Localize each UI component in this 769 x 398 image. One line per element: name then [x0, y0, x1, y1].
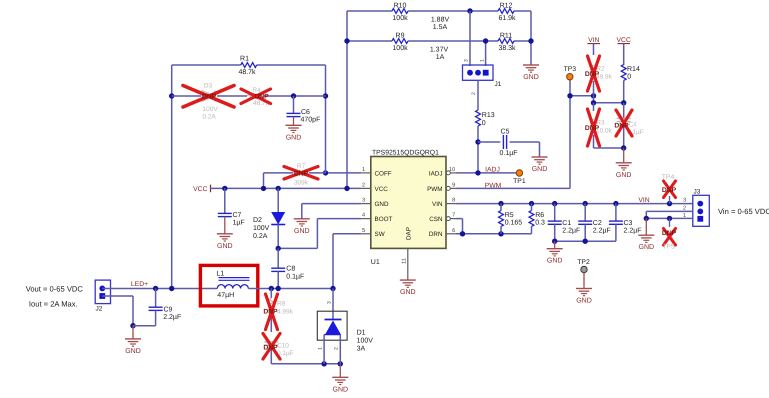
svg-text:R5: R5 — [505, 212, 514, 219]
svg-text:DNP: DNP — [662, 230, 677, 237]
svg-text:Vout = 0-65 VDC: Vout = 0-65 VDC — [26, 284, 84, 293]
wire D3/R4 middle net — [172, 93, 326, 98]
DNP mark D3 — [183, 86, 234, 108]
svg-text:0.1µF: 0.1µF — [286, 273, 304, 280]
label 1.88V 1.5A — [431, 17, 450, 32]
svg-text:8: 8 — [452, 198, 455, 204]
svg-text:L1: L1 — [216, 270, 224, 277]
svg-text:J2: J2 — [96, 306, 103, 313]
capacitor C5 — [478, 129, 540, 158]
svg-text:R14: R14 — [627, 66, 640, 73]
pin label 1 of J1 — [480, 59, 486, 62]
wire CSN net — [456, 219, 463, 234]
svg-text:J3: J3 — [694, 189, 701, 196]
pin 6 DRN of U1 — [429, 228, 456, 238]
test point TP3 — [564, 66, 577, 80]
DNP mark C10 — [263, 334, 280, 360]
svg-text:DNP: DNP — [294, 171, 309, 178]
svg-text:GND: GND — [532, 166, 548, 173]
svg-text:DNP: DNP — [263, 345, 278, 352]
pin 7 CSN of U1 — [429, 213, 455, 223]
svg-text:GND: GND — [576, 298, 592, 305]
pin 1 COFF of U1 — [361, 167, 392, 177]
resistor R7 DNP crossed — [264, 163, 326, 188]
svg-text:TP1: TP1 — [513, 178, 526, 185]
svg-text:0.1µF: 0.1µF — [500, 150, 518, 157]
wire left rail of R1 loop — [169, 65, 174, 289]
wire C10 to D1 anode row — [271, 361, 343, 366]
svg-text:Vin = 0-65 VDC: Vin = 0-65 VDC — [718, 207, 769, 216]
wire VCC net — [211, 186, 362, 191]
wire J1 pin1 drop — [483, 38, 488, 66]
pin 5 SW of U1 — [361, 228, 384, 238]
DNP mark R7 — [284, 167, 318, 180]
wire R10 top net — [347, 10, 531, 12]
wire PWM net to TP3 — [456, 80, 570, 188]
svg-text:47µH: 47µH — [217, 292, 234, 299]
pin label 2 of J3 — [683, 206, 686, 212]
wire J2 pin2 to gnd node — [102, 296, 135, 328]
resistor R6 — [529, 204, 545, 234]
svg-text:U1: U1 — [371, 259, 380, 266]
DNP mark R2 — [585, 56, 600, 91]
svg-text:TP3: TP3 — [564, 66, 577, 73]
svg-text:D2: D2 — [253, 217, 262, 224]
connector J1 — [463, 65, 502, 88]
DNP mark R4 — [241, 89, 271, 104]
svg-text:11: 11 — [402, 258, 408, 264]
svg-text:C10: C10 — [277, 342, 289, 349]
wire GND pin3 net — [302, 204, 361, 219]
wire R3/C4 bottoms tie — [594, 145, 627, 150]
svg-text:DAP: DAP — [406, 227, 413, 240]
wire J1 pin2 to R13 — [477, 80, 479, 110]
svg-text:2.2µF: 2.2µF — [163, 314, 181, 321]
svg-text:D1: D1 — [357, 330, 366, 337]
wire SW net — [333, 234, 361, 289]
svg-text:DNP: DNP — [585, 125, 600, 132]
capacitor C2 — [578, 204, 611, 242]
svg-text:DNP: DNP — [254, 94, 269, 101]
svg-text:DNP: DNP — [202, 94, 217, 101]
pin label 3 of J1 — [464, 59, 470, 62]
svg-text:C4: C4 — [629, 122, 638, 129]
svg-text:3: 3 — [464, 59, 470, 62]
wire BOOT net — [276, 219, 362, 251]
svg-text:GND: GND — [400, 289, 416, 296]
svg-text:9: 9 — [452, 182, 455, 188]
DNP mark C4 — [614, 110, 637, 136]
label 1.37V 1A — [430, 47, 449, 62]
svg-text:PWM: PWM — [485, 182, 502, 189]
svg-text:GND: GND — [639, 244, 655, 251]
svg-text:3: 3 — [327, 301, 333, 304]
wire IADJ net to TP1 — [456, 170, 517, 175]
inductor L1 — [216, 270, 249, 299]
svg-text:GND: GND — [547, 258, 563, 265]
ground under J3 — [638, 218, 654, 251]
svg-text:2: 2 — [334, 347, 340, 350]
capacitor C6 — [287, 96, 321, 125]
svg-text:3: 3 — [362, 198, 365, 204]
pin 10 IADJ of U1 — [429, 167, 456, 177]
svg-text:TPS92515QDGQRQ1: TPS92515QDGQRQ1 — [372, 149, 439, 156]
svg-text:R10: R10 — [394, 2, 407, 9]
svg-text:2.2µF: 2.2µF — [624, 228, 642, 235]
net label IADJ — [485, 166, 500, 173]
ground under TP2 — [576, 289, 592, 305]
svg-text:6: 6 — [452, 228, 455, 234]
svg-text:GND: GND — [286, 134, 302, 141]
svg-text:470pF: 470pF — [301, 116, 321, 123]
svg-text:IADJ: IADJ — [429, 170, 443, 177]
resistor R10 — [392, 2, 408, 22]
test point TP2 — [577, 259, 590, 289]
capacitor C9 — [133, 289, 181, 326]
svg-text:LED+: LED+ — [131, 281, 148, 288]
wire J3 pin2 to gnd — [646, 211, 693, 218]
resistor R9 — [392, 32, 408, 52]
svg-text:GND: GND — [125, 348, 141, 355]
svg-text:C3: C3 — [624, 220, 633, 227]
pin 2 VCC of U1 — [361, 182, 388, 192]
svg-text:38.3k: 38.3k — [498, 44, 516, 52]
svg-text:1: 1 — [362, 167, 365, 173]
svg-text:1.5A: 1.5A — [433, 24, 448, 31]
ground under C1 — [547, 241, 563, 265]
label Vin = 0-65 VDC — [718, 207, 769, 216]
svg-text:1.37V: 1.37V — [430, 47, 449, 54]
diode D1 — [317, 311, 373, 364]
svg-text:DNP: DNP — [585, 71, 600, 78]
svg-text:D3: D3 — [204, 82, 213, 89]
svg-text:1µF: 1µF — [233, 220, 245, 227]
svg-text:GND: GND — [375, 201, 389, 208]
svg-text:Iout = 2A Max.: Iout = 2A Max. — [29, 299, 78, 308]
pin 9 PWM of U1 — [427, 182, 455, 192]
svg-text:GND: GND — [294, 228, 310, 235]
svg-text:VCC: VCC — [375, 186, 389, 193]
svg-text:100V: 100V — [253, 225, 270, 232]
svg-text:DNP: DNP — [662, 187, 677, 194]
svg-text:J1: J1 — [495, 81, 502, 88]
resistor R1 — [238, 56, 256, 76]
connector J2 — [95, 280, 110, 312]
wire COFF net — [323, 170, 361, 175]
svg-text:IADJ: IADJ — [485, 166, 500, 173]
svg-text:0: 0 — [482, 120, 486, 127]
svg-text:R12: R12 — [500, 2, 513, 9]
ground under D1 — [332, 364, 348, 394]
svg-text:7: 7 — [452, 213, 455, 219]
svg-text:COFF: COFF — [375, 170, 392, 177]
svg-text:61.9k: 61.9k — [498, 14, 516, 22]
wire J1 pin3 drop — [469, 11, 471, 66]
svg-text:CSN: CSN — [429, 216, 443, 223]
svg-text:1A: 1A — [436, 54, 445, 61]
svg-text:3A: 3A — [357, 346, 366, 353]
pin label 1 of J3 — [683, 213, 686, 219]
pin 11 DAP of U1 — [402, 227, 413, 280]
test point TP1 — [513, 170, 526, 185]
svg-text:DNP: DNP — [614, 123, 629, 130]
pin 4 BOOT of U1 — [361, 213, 392, 223]
svg-text:R1: R1 — [240, 56, 249, 63]
wire VIN bus — [456, 201, 693, 206]
DNP mark R3 — [585, 109, 600, 146]
connector J3 — [693, 189, 710, 227]
wire capacitor bottoms tie — [552, 239, 616, 244]
ground under DAP — [400, 280, 416, 296]
wire LED+ net — [102, 286, 217, 291]
wire DRN net — [456, 231, 532, 236]
capacitor C3 — [609, 204, 642, 242]
ground under C7 — [217, 234, 233, 250]
svg-text:309k: 309k — [294, 180, 309, 187]
net label LED+ — [131, 281, 148, 288]
test point TP4 DNP crossed — [662, 174, 677, 204]
svg-text:48.7k: 48.7k — [238, 68, 256, 76]
svg-text:GND: GND — [616, 172, 632, 179]
capacitor C4 DNP crossed — [617, 103, 644, 148]
resistor R3 DNP crossed — [591, 103, 613, 148]
pin label 3 of J3 — [683, 198, 686, 204]
wire J3 pin1 net — [644, 216, 693, 221]
resistor R8 DNP crossed — [269, 289, 294, 333]
label U1 — [371, 259, 380, 266]
capacitor C10 DNP crossed — [264, 342, 293, 364]
svg-text:VCC: VCC — [193, 186, 207, 193]
ground under J2 — [125, 326, 141, 355]
svg-text:R13: R13 — [482, 112, 495, 119]
svg-text:2.2µF: 2.2µF — [562, 228, 580, 235]
svg-text:4: 4 — [362, 213, 365, 219]
ground under C6 — [286, 125, 302, 141]
wire R2/R14 bottoms tie — [591, 96, 627, 106]
svg-text:VIN: VIN — [638, 197, 649, 204]
svg-text:0: 0 — [627, 74, 631, 81]
svg-text:C9: C9 — [164, 306, 173, 313]
svg-text:R7: R7 — [297, 163, 306, 170]
wire L1 to SW node — [248, 286, 335, 291]
resistor R11 — [498, 32, 516, 52]
capacitor C8 — [271, 248, 304, 288]
ground under R11 — [523, 65, 539, 81]
label Vout = 0-65 VDC — [26, 284, 84, 293]
ground at pin 3 — [294, 219, 310, 235]
port VCC left — [193, 185, 210, 193]
capacitor C7 — [218, 188, 245, 233]
svg-text:2: 2 — [683, 206, 686, 212]
svg-text:GND: GND — [333, 386, 349, 393]
wire R12 right rail to GND — [528, 11, 533, 65]
pin 3 GND of U1 — [361, 198, 389, 208]
DNP mark R8 — [263, 294, 278, 330]
svg-text:DNP: DNP — [263, 308, 278, 315]
svg-text:2.2µF: 2.2µF — [593, 228, 611, 235]
svg-text:100V: 100V — [357, 338, 374, 345]
svg-text:0.165: 0.165 — [505, 219, 523, 226]
resistor R4 DNP crossed — [248, 87, 270, 107]
test point TP5 DNP crossed — [662, 218, 677, 250]
wire right rail of R1 loop — [323, 65, 328, 173]
net label PWM — [485, 182, 502, 189]
svg-text:C2: C2 — [593, 220, 602, 227]
svg-text:R8: R8 — [277, 301, 286, 308]
svg-text:VIN: VIN — [588, 37, 599, 44]
highlight box around L1 — [200, 265, 257, 306]
svg-text:BOOT: BOOT — [375, 216, 393, 223]
svg-text:C7: C7 — [233, 212, 242, 219]
diode D2 — [253, 188, 285, 248]
svg-text:VIN: VIN — [432, 201, 443, 208]
resistor R13 — [476, 110, 495, 127]
pin 8 VIN of U1 — [432, 198, 456, 208]
svg-text:100k: 100k — [392, 14, 408, 22]
wire R13 to IADJ node — [475, 126, 480, 173]
resistor R14 — [621, 65, 640, 103]
svg-text:100V: 100V — [203, 106, 219, 113]
svg-text:1.88V: 1.88V — [431, 17, 450, 24]
svg-text:3: 3 — [683, 198, 686, 204]
node R10-R12 junction — [467, 8, 472, 13]
svg-text:100k: 100k — [392, 44, 408, 52]
svg-text:GND: GND — [523, 74, 539, 81]
svg-text:R9: R9 — [396, 32, 405, 39]
svg-text:4.99k: 4.99k — [277, 309, 294, 316]
port VIN top right — [588, 37, 601, 55]
wire left rail from R9/R10 down to VCC — [344, 11, 349, 188]
port VCC top right — [617, 37, 631, 65]
svg-text:1: 1 — [480, 59, 486, 62]
svg-text:DRN: DRN — [429, 231, 443, 238]
net label VIN — [638, 197, 649, 204]
svg-text:0.2A: 0.2A — [203, 114, 217, 121]
ground under C4 — [616, 148, 632, 179]
op-amp U1 TPS92515 body — [371, 149, 446, 248]
svg-text:C8: C8 — [286, 265, 295, 272]
pin label 2 of J1 — [471, 92, 477, 95]
svg-text:PWM: PWM — [427, 186, 442, 193]
svg-text:TP2: TP2 — [577, 259, 590, 266]
svg-text:C6: C6 — [301, 109, 310, 116]
wire R1 top net — [172, 64, 326, 66]
svg-text:SW: SW — [375, 231, 385, 238]
svg-text:0.3: 0.3 — [535, 219, 545, 226]
svg-text:TP5: TP5 — [662, 243, 675, 250]
svg-text:0.2A: 0.2A — [253, 233, 268, 240]
svg-text:R6: R6 — [535, 212, 544, 219]
ground under C5 — [532, 157, 548, 173]
svg-text:2: 2 — [362, 182, 365, 188]
wire SW node to D1 cathode — [327, 289, 334, 320]
svg-text:5: 5 — [362, 228, 365, 234]
resistor R5 — [499, 204, 523, 234]
svg-text:1: 1 — [318, 347, 324, 350]
svg-text:VCC: VCC — [617, 37, 631, 44]
svg-text:R11: R11 — [500, 32, 512, 39]
label Iout = 2A Max. — [29, 299, 78, 308]
svg-text:2: 2 — [471, 92, 477, 95]
resistor R2 DNP crossed — [591, 65, 613, 96]
svg-text:GND: GND — [217, 243, 233, 250]
wire TP3 tap to R2 bottom — [567, 93, 596, 98]
resistor R12 — [498, 2, 516, 22]
capacitor C1 — [548, 204, 581, 242]
diode D3 DNP crossed — [202, 82, 218, 120]
wire R9 net — [347, 40, 531, 42]
svg-text:C1: C1 — [562, 220, 571, 227]
svg-text:C5: C5 — [501, 129, 510, 136]
